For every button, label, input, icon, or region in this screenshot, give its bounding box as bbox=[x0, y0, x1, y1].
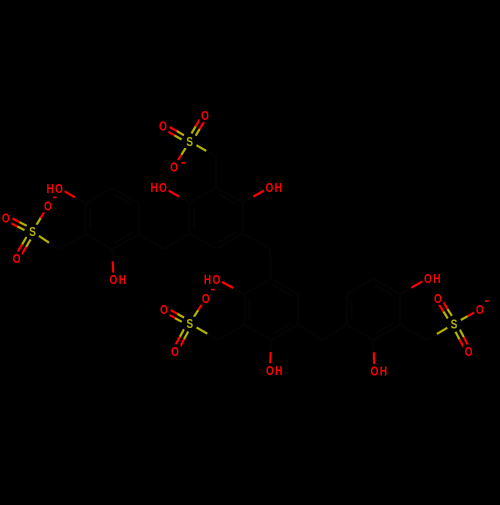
svg-text:O: O bbox=[159, 120, 167, 134]
svg-text:O: O bbox=[2, 211, 10, 225]
svg-text:O: O bbox=[201, 109, 209, 123]
svg-text:O: O bbox=[434, 292, 442, 306]
svg-text:S: S bbox=[186, 135, 193, 149]
svg-text:H: H bbox=[275, 181, 282, 195]
svg-text:H: H bbox=[204, 273, 211, 287]
svg-text:S: S bbox=[451, 317, 458, 331]
svg-text:O: O bbox=[371, 364, 379, 378]
svg-text:H: H bbox=[380, 364, 387, 378]
svg-text:H: H bbox=[119, 273, 126, 287]
svg-text:O: O bbox=[265, 181, 273, 195]
svg-text:O: O bbox=[170, 161, 178, 175]
svg-text:O: O bbox=[465, 345, 473, 359]
svg-text:O: O bbox=[202, 292, 210, 306]
svg-text:O: O bbox=[55, 182, 63, 196]
svg-text:O: O bbox=[424, 272, 432, 286]
svg-text:H: H bbox=[46, 182, 53, 196]
svg-text:H: H bbox=[150, 181, 157, 195]
svg-text:O: O bbox=[160, 303, 168, 317]
svg-text:O: O bbox=[212, 273, 220, 287]
svg-text:H: H bbox=[433, 272, 440, 286]
svg-text:O: O bbox=[13, 252, 21, 266]
svg-text:H: H bbox=[275, 364, 282, 378]
svg-text:O: O bbox=[110, 273, 118, 287]
svg-text:O: O bbox=[171, 345, 179, 359]
svg-text:O: O bbox=[476, 303, 484, 317]
svg-text:O: O bbox=[44, 199, 52, 213]
svg-text:O: O bbox=[266, 364, 274, 378]
svg-text:S: S bbox=[29, 225, 36, 239]
svg-text:S: S bbox=[186, 317, 193, 331]
svg-text:O: O bbox=[159, 181, 167, 195]
